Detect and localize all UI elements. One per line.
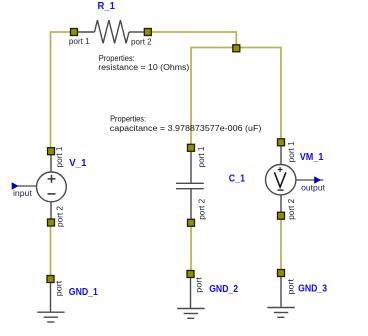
- capacitor C1 lead bottom: [190, 189, 192, 219]
- VM1 V glyph: [274, 172, 286, 187]
- input arrow: [12, 183, 18, 189]
- svg-text:VM_1: VM_1: [300, 152, 324, 163]
- input pin wire: [18, 185, 37, 187]
- svg-text:input: input: [13, 188, 33, 198]
- svg-text:GND_1: GND_1: [69, 287, 99, 298]
- VM1 small plus: [278, 169, 283, 171]
- ground GND_1 bars: [37, 311, 64, 313]
- capacitor C1 lead top: [190, 151, 192, 183]
- svg-text:C_1: C_1: [229, 173, 246, 184]
- ground GND_2 bars: [177, 308, 204, 310]
- svg-text:GND_3: GND_3: [298, 284, 327, 295]
- port square GND_3: [278, 270, 285, 277]
- port square V port2: [48, 219, 55, 226]
- svg-text:R_1: R_1: [98, 1, 116, 12]
- svg-text:port 1: port 1: [196, 146, 206, 167]
- port square VM port1: [278, 139, 285, 146]
- wire junction to C_1 port1: [191, 48, 233, 145]
- svg-text:Properties:: Properties:: [110, 114, 146, 124]
- junction node square: [233, 45, 240, 52]
- ground GND_1 pin: [50, 283, 52, 312]
- svg-text:port 2: port 2: [131, 37, 152, 47]
- port square R port2: [144, 29, 151, 36]
- output arrow: [315, 177, 321, 183]
- svg-text:resistance = 10 (Ohms): resistance = 10 (Ohms): [98, 62, 189, 72]
- svg-text:port: port: [194, 277, 204, 293]
- voltmeter VM1 circle: [266, 165, 296, 195]
- wire R port2 to junction: [151, 32, 236, 45]
- wire VM_1 port2 to GND_3: [280, 219, 282, 269]
- svg-text:port 1: port 1: [69, 36, 90, 46]
- voltmeter VM1 lead bottom: [280, 195, 282, 213]
- wire net input: R port1 to V_1 port1: [51, 32, 71, 148]
- svg-text:port: port: [54, 280, 64, 296]
- wire junction to VM_1 port1: [240, 48, 281, 139]
- svg-text:port: port: [285, 278, 295, 294]
- resistor R1 lead right: [129, 31, 144, 33]
- port square VM port2: [278, 212, 285, 219]
- svg-text:port 2: port 2: [286, 199, 296, 220]
- port square GND_1: [47, 276, 54, 283]
- ground GND_2 pin: [190, 278, 192, 309]
- voltmeter VM1 lead top: [280, 146, 282, 165]
- port square GND_2: [187, 271, 194, 278]
- capacitor C1 top plate: [176, 182, 204, 184]
- ground GND_3 bars: [267, 307, 294, 309]
- V1 minus sign: [48, 193, 56, 195]
- svg-text:port 2: port 2: [196, 199, 206, 220]
- svg-text:port 2: port 2: [55, 206, 65, 227]
- port square C port1: [188, 144, 195, 151]
- voltage source V1 lead top: [50, 155, 52, 172]
- VM1 minus sign: [277, 189, 283, 191]
- svg-text:output: output: [301, 183, 326, 193]
- resistor R1 lead left: [78, 31, 95, 33]
- svg-text:GND_2: GND_2: [209, 284, 238, 295]
- voltage source V1 circle: [37, 172, 67, 202]
- svg-text:port 1: port 1: [286, 141, 296, 162]
- wire C_1 port2 to GND_2: [190, 226, 192, 270]
- port square R port1: [71, 29, 78, 36]
- capacitor C1 bottom plate: [176, 188, 204, 190]
- svg-text:capacitance = 3.978873577e-006: capacitance = 3.978873577e-006 (uF): [110, 123, 262, 133]
- svg-text:V_1: V_1: [69, 158, 87, 169]
- port square V port1: [48, 148, 55, 155]
- voltage source V1 lead bottom: [50, 202, 52, 219]
- resistor R1 zigzag: [95, 20, 130, 43]
- svg-text:port 1: port 1: [54, 146, 64, 167]
- wire V_1 port2 to GND_1: [50, 226, 52, 276]
- V1 plus sign: [48, 178, 56, 180]
- output pin wire: [296, 179, 323, 181]
- ground GND_3 pin: [280, 277, 282, 308]
- port square C port2: [188, 219, 195, 226]
